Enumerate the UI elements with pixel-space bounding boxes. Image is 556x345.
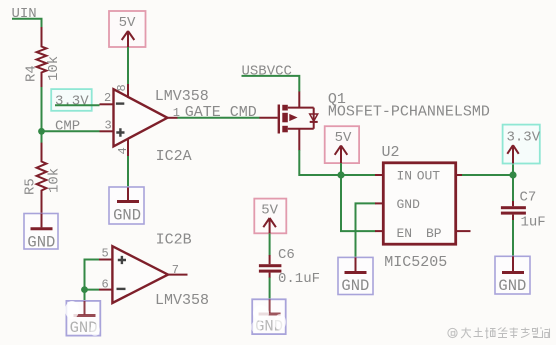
svg-text:OUT: OUT (417, 169, 441, 184)
op-amp U1 IC2B (99, 232, 209, 309)
svg-text:GND: GND (341, 277, 369, 295)
svg-text:1uF: 1uF (521, 215, 546, 231)
ground GND box under R5 (24, 214, 58, 252)
svg-text:5: 5 (102, 247, 109, 261)
wire GND pin down (356, 203, 376, 257)
supply 5V box above IC2A (109, 11, 146, 47)
supply 5V box middle (325, 126, 359, 163)
ground GND box under C7 (495, 256, 530, 295)
capacitor C7 (501, 190, 546, 231)
resistor R1 R4 (24, 27, 63, 87)
svg-text:2: 2 (104, 91, 111, 105)
svg-text:10k: 10k (46, 56, 62, 81)
supply 3.3V box right (503, 125, 541, 164)
ground GND box under C6 (faded) (251, 299, 286, 335)
op-amp U1 IC2A (100, 84, 209, 165)
wire C6 to ground (269, 278, 271, 300)
svg-text:GND: GND (113, 207, 141, 225)
node junction OUT (509, 171, 516, 178)
svg-text:5V: 5V (119, 15, 136, 31)
svg-text:LMV358: LMV358 (155, 88, 209, 105)
svg-text:IC2A: IC2A (156, 148, 192, 165)
wire 5V to C6 (269, 233, 271, 255)
node junction at 5V rail (337, 171, 344, 178)
svg-text:10k: 10k (47, 168, 63, 193)
svg-text:EN: EN (397, 226, 413, 241)
wire 5V to IC2A pin8 (127, 47, 129, 85)
transistor Q1 P-MOSFET (259, 91, 490, 151)
svg-text:IC2B: IC2B (156, 232, 192, 249)
svg-text:7: 7 (172, 263, 179, 277)
net GATE_CMD wire IC2A out to Q1 gate (177, 117, 259, 119)
svg-text:5V: 5V (261, 202, 278, 218)
wire 5V to rail junction (340, 163, 342, 175)
svg-text:CMP: CMP (55, 119, 80, 135)
watermark (448, 328, 457, 337)
ground GND box under IC2B (faded) (65, 301, 100, 337)
svg-text:C7: C7 (520, 190, 537, 206)
svg-text:4: 4 (116, 147, 130, 154)
svg-text:8: 8 (115, 84, 129, 91)
wire R4 to CMP node and R5 (41, 87, 43, 143)
svg-text:MIC5205: MIC5205 (384, 254, 447, 271)
svg-text:R5: R5 (23, 178, 39, 195)
wire junction up to 3.3V (512, 164, 514, 176)
ground GND box under IC2A pin4 (109, 187, 144, 225)
svg-text:BP: BP (426, 226, 442, 241)
wire junction to ground (84, 290, 86, 302)
svg-text:IN: IN (397, 169, 413, 184)
regulator U2 MIC5205 (375, 144, 471, 271)
svg-text:3: 3 (105, 118, 112, 132)
svg-text:C6: C6 (278, 247, 295, 263)
svg-text:6: 6 (102, 277, 109, 291)
ground GND box under U2 (338, 257, 373, 295)
svg-text:GND: GND (397, 197, 421, 212)
wire OUT to C7 rail (462, 174, 513, 176)
svg-text:GND: GND (498, 277, 526, 295)
svg-text:GND: GND (27, 234, 55, 252)
node junction IC2B inputs (81, 286, 88, 293)
wire junction down to C7 (512, 175, 514, 202)
node CMP junction (38, 128, 45, 135)
svg-text:R4: R4 (24, 65, 40, 82)
capacitor C6 (259, 247, 320, 287)
wire junction to EN pin (341, 175, 376, 231)
resistor R5 (23, 143, 63, 228)
wire IC2A pin4 to ground (127, 156, 129, 188)
wire IC2B inputs tied to ground (85, 260, 100, 290)
svg-text:3.3V: 3.3V (55, 94, 89, 110)
wire USBVCC to Q1 source (242, 76, 300, 92)
svg-text:3.3V: 3.3V (507, 129, 541, 145)
svg-text:LMV358: LMV358 (155, 292, 209, 309)
svg-text:MOSFET-PCHANNELSMD: MOSFET-PCHANNELSMD (328, 104, 490, 121)
node UIN label (12, 6, 37, 22)
wire CMP to IC2A pin3 (42, 130, 100, 132)
wire UIN to R4 (12, 19, 42, 28)
svg-text:0.1uF: 0.1uF (278, 271, 320, 287)
node 3.3V net label left (51, 89, 91, 111)
wire Q1 drain to rail (299, 150, 375, 175)
wire C7 to ground (512, 220, 514, 257)
supply 5V box above C6 (254, 199, 286, 234)
svg-text:U2: U2 (382, 144, 400, 161)
svg-text:5V: 5V (335, 130, 352, 146)
wire 3.3V label to IC2A pin2 (55, 104, 100, 106)
svg-text:USBVCC: USBVCC (242, 64, 292, 80)
